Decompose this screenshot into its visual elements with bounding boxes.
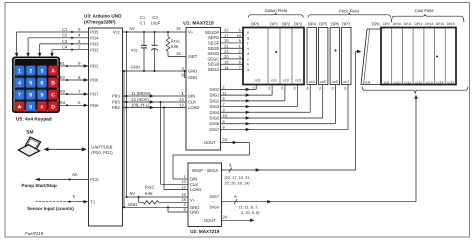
svg-text:DP12: DP12 <box>415 22 423 26</box>
svg-text:PD7: PD7 <box>90 92 99 97</box>
U1 DIG labels <box>210 87 220 132</box>
svg-text:9.9k: 9.9k <box>171 44 180 49</box>
svg-text:d: d <box>247 52 249 56</box>
wire DIG1 to cc1 <box>221 85 273 97</box>
svg-text:C1: C1 <box>140 15 146 20</box>
display gallon 4-digit <box>243 21 304 84</box>
brace Gallon Field <box>248 8 303 18</box>
capacitor C1 <box>140 15 147 71</box>
wire UART double arrow <box>44 147 87 151</box>
wire column C1 to pin 5 <box>15 27 89 57</box>
svg-text:2: 2 <box>223 85 225 90</box>
svg-text:T1: T1 <box>90 199 96 204</box>
svg-text:SEGC: SEGC <box>207 56 219 61</box>
svg-text:DP1: DP1 <box>270 21 279 26</box>
svg-text:cc5: cc5 <box>320 80 326 84</box>
U1 segment labels <box>205 30 220 72</box>
svg-text:4: 4 <box>18 81 21 87</box>
label digit bus pins <box>239 204 260 214</box>
decimal point price <box>335 50 337 52</box>
svg-text:23: 23 <box>224 49 228 54</box>
svg-text:DP11: DP11 <box>404 22 412 26</box>
wire row R4 to pin 6 <box>60 100 89 107</box>
resistor Rxx2 <box>139 184 188 204</box>
wire U2 DOUT <box>222 215 255 222</box>
svg-text:cc11: cc11 <box>404 81 411 85</box>
svg-text:9.9k: 9.9k <box>145 191 154 196</box>
svg-text:DIN: DIN <box>188 94 195 99</box>
svg-text:PB3: PB3 <box>112 94 121 99</box>
brace Cost Field <box>391 8 464 22</box>
svg-text:g: g <box>247 36 249 40</box>
svg-text:DOUT: DOUT <box>204 218 216 223</box>
svg-text:15: 15 <box>224 38 228 43</box>
svg-text:DIG7: DIG7 <box>210 194 220 199</box>
svg-text:R4: R4 <box>60 100 66 105</box>
svg-text:5: 5 <box>223 119 225 124</box>
U1 box <box>186 28 221 151</box>
svg-text:DIG3: DIG3 <box>210 104 220 109</box>
svg-text:1: 1 <box>18 68 21 74</box>
svg-text:9: 9 <box>40 93 43 99</box>
svg-text:2: 2 <box>29 68 32 74</box>
svg-text:SM: SM <box>26 130 33 136</box>
svg-text:Pump Start/Stop: Pump Start/Stop <box>22 183 58 188</box>
wire row R2 to pin 8 <box>60 75 89 82</box>
svg-text:(PD0, PD1): (PD0, PD1) <box>91 150 113 155</box>
svg-text:R3: R3 <box>60 89 66 94</box>
display digit DP5 <box>318 21 328 84</box>
U2 top label <box>192 168 219 173</box>
svg-text:Rxx2: Rxx2 <box>145 184 155 189</box>
svg-text:5: 5 <box>239 28 241 33</box>
svg-text:V+: V+ <box>188 30 194 35</box>
svg-text:U5: 4x4 Keypad: U5: 4x4 Keypad <box>16 116 52 122</box>
svg-text:5V: 5V <box>130 26 135 31</box>
svg-text:6: 6 <box>223 96 225 101</box>
svg-text:DP8: DP8 <box>372 22 381 27</box>
decimal point gallon <box>275 51 277 53</box>
svg-text:DP2: DP2 <box>282 21 291 26</box>
svg-text:★: ★ <box>17 103 22 110</box>
svg-text:cc14: cc14 <box>436 81 443 85</box>
svg-text:PD4: PD4 <box>90 35 99 40</box>
svg-text:SEGD: SEGD <box>207 51 219 56</box>
svg-text:11: 11 <box>223 90 227 95</box>
svg-text:3: 3 <box>332 86 334 91</box>
U2 box <box>188 163 222 227</box>
svg-text:p: p <box>247 31 249 35</box>
svg-text:cc3: cc3 <box>295 79 301 83</box>
svg-text:(22, 17, 15, 21,: (22, 17, 15, 21, <box>225 175 251 180</box>
svg-text:Vcc: Vcc <box>113 30 120 35</box>
svg-text:DP5: DP5 <box>319 21 328 26</box>
node 5V wire <box>123 26 187 33</box>
wire row R3 to pin 7 <box>60 89 89 96</box>
svg-text:3: 3 <box>281 86 283 91</box>
svg-text:V+: V+ <box>190 197 196 202</box>
decimal point cost <box>436 56 438 58</box>
svg-text:DP7: DP7 <box>342 21 351 26</box>
svg-text:0.1: 0.1 <box>140 21 146 26</box>
svg-text:19: 19 <box>176 26 181 31</box>
svg-text:GND: GND <box>188 75 197 80</box>
svg-text:12: 12 <box>181 184 186 189</box>
svg-text:GND: GND <box>188 69 197 74</box>
svg-text:C4: C4 <box>62 45 68 50</box>
wire sensor T1 <box>35 194 88 203</box>
svg-text:cc6: cc6 <box>332 80 338 84</box>
svg-text:R1: R1 <box>60 61 66 66</box>
svg-text:c: c <box>247 57 249 61</box>
svg-text:UART/USB: UART/USB <box>91 144 112 149</box>
svg-text:22: 22 <box>224 28 228 33</box>
svg-text:DP13: DP13 <box>425 22 433 26</box>
wire 5V rail <box>125 32 188 198</box>
bus U2 digits to cost display <box>222 95 418 205</box>
svg-text:Gallon Field: Gallon Field <box>265 8 288 13</box>
svg-text:Price Field: Price Field <box>339 8 359 13</box>
svg-text:Vcc: Vcc <box>131 47 138 52</box>
svg-text:DP4: DP4 <box>308 21 317 26</box>
svg-text:GND: GND <box>128 202 137 207</box>
svg-text:cc1: cc1 <box>271 79 277 83</box>
svg-text:U2: MAX7219: U2: MAX7219 <box>190 229 220 234</box>
svg-text:3: 3 <box>40 68 43 74</box>
svg-text:13: 13 <box>179 97 184 102</box>
svg-text:A: A <box>51 68 55 74</box>
svg-text:C: C <box>51 93 55 99</box>
resistor Rxx1 <box>166 32 186 57</box>
svg-text:21: 21 <box>224 44 228 49</box>
U3 left pin labels <box>90 30 113 205</box>
svg-text:DIG0: DIG0 <box>210 87 220 92</box>
svg-text:DIG0: DIG0 <box>210 205 220 210</box>
U2 left pin numbers <box>181 174 186 212</box>
brace Price Field <box>308 8 391 17</box>
svg-text:cc12: cc12 <box>415 81 422 85</box>
svg-text:12: 12 <box>179 102 184 107</box>
svg-text:SEGB: SEGB <box>208 62 220 67</box>
svg-text:8: 8 <box>29 93 32 99</box>
svg-text:(ATmega328P): (ATmega328P) <box>84 19 116 24</box>
svg-text:19: 19 <box>181 192 186 197</box>
wire DIG7 to cc7 <box>221 85 349 132</box>
wire column C3 to pin 3 <box>38 39 89 57</box>
wire GND rail <box>123 71 188 212</box>
svg-text:DP15: DP15 <box>447 22 455 26</box>
svg-text:#: # <box>40 104 43 110</box>
svg-text:DP9: DP9 <box>383 22 389 26</box>
svg-text:cc0: cc0 <box>255 79 261 83</box>
svg-text:18: 18 <box>176 51 181 56</box>
svg-text:SEGE: SEGE <box>208 46 220 51</box>
svg-text:3: 3 <box>268 86 270 91</box>
svg-text:11 (MOSI): 11 (MOSI) <box>131 91 151 96</box>
svg-text:LOAD: LOAD <box>190 187 201 192</box>
svg-text:5V: 5V <box>130 191 135 196</box>
svg-text:(2, 11, 6, 7,: (2, 11, 6, 7, <box>239 204 258 209</box>
svg-text:CLK: CLK <box>188 100 196 105</box>
svg-text:DIG1: DIG1 <box>210 93 220 98</box>
svg-text:PB1: PB1 <box>90 64 99 69</box>
svg-text:PD6: PD6 <box>90 103 99 108</box>
title Fuel7219 <box>25 231 44 236</box>
svg-text:D: D <box>51 104 55 110</box>
svg-text:A0: A0 <box>72 172 78 177</box>
svg-text:B: B <box>51 81 55 87</box>
svg-text:10(L-H-L): 10(L-H-L) <box>131 102 150 107</box>
svg-text:7: 7 <box>239 65 241 70</box>
svg-text:DIG6: DIG6 <box>210 121 220 126</box>
wire DIG4 to cc4 <box>221 85 311 114</box>
wire SPI 13 (SCK) <box>123 97 187 104</box>
svg-text:cc13: cc13 <box>426 81 433 85</box>
svg-text:3: 3 <box>306 86 308 91</box>
svg-text:8: 8 <box>223 125 225 130</box>
label U5 <box>16 116 52 122</box>
svg-text:SEGA: SEGA <box>208 67 220 72</box>
svg-text:6: 6 <box>40 81 43 87</box>
U1 left pin numbers <box>176 26 184 96</box>
label Pump Start/Stop <box>22 183 58 188</box>
svg-text:PB0: PB0 <box>90 78 99 83</box>
svg-text:cc7: cc7 <box>343 80 349 84</box>
wire DIG6 to cc6 <box>221 85 336 126</box>
svg-text:DOUT: DOUT <box>204 140 216 145</box>
svg-text:Sensor Input (counts): Sensor Input (counts) <box>27 206 74 211</box>
svg-text:PB5: PB5 <box>112 100 121 105</box>
wire SPI 10(L-H-L) <box>123 102 187 109</box>
svg-text:U1: MAX7219: U1: MAX7219 <box>183 20 214 26</box>
svg-text:R2: R2 <box>60 75 66 80</box>
display digit DP4 <box>307 21 317 84</box>
svg-text:PD3: PD3 <box>90 42 99 47</box>
U2 left labels <box>190 177 216 223</box>
svg-text:SEGP - SEGA: SEGP - SEGA <box>192 168 219 173</box>
svg-text:PD5: PD5 <box>90 30 99 35</box>
svg-text:DP3: DP3 <box>294 21 303 26</box>
label U3 title <box>84 14 122 25</box>
wire LOAD branch to U2 <box>163 106 188 189</box>
bus U2 segments to cost display <box>222 50 362 173</box>
svg-text:PC0: PC0 <box>90 177 99 182</box>
svg-text:0: 0 <box>29 104 32 110</box>
svg-text:DIG2: DIG2 <box>210 98 220 103</box>
svg-text:23, 20, 16, 14): 23, 20, 16, 14) <box>225 181 251 186</box>
svg-text:DIN: DIN <box>190 177 197 182</box>
label SM <box>26 130 33 136</box>
capacitor C2 <box>151 15 161 71</box>
svg-text:Rxx1: Rxx1 <box>171 38 181 43</box>
svg-text:a: a <box>247 68 249 72</box>
svg-text:PD2: PD2 <box>90 47 99 52</box>
wires U1 segments to display <box>221 28 244 70</box>
svg-text:Fuel7219: Fuel7219 <box>25 231 44 236</box>
U2 right labels <box>210 194 220 210</box>
label U2 title <box>190 229 220 234</box>
svg-text:SEFG: SEFG <box>208 35 219 40</box>
display digit DP8 <box>361 22 381 85</box>
wire row R1 to pin 9 <box>60 61 89 68</box>
svg-text:cc2: cc2 <box>283 79 289 83</box>
svg-text:SEGF: SEGF <box>208 40 220 45</box>
svg-text:LOAD: LOAD <box>188 105 199 110</box>
wire DIG5 to cc5 <box>221 85 323 120</box>
wire column C2 to pin 4 <box>26 33 88 58</box>
svg-text:DIG7: DIG7 <box>210 127 220 132</box>
wire CLK branch to U2 <box>159 101 188 184</box>
svg-text:U3: Arduino UNO: U3: Arduino UNO <box>84 14 122 19</box>
svg-text:24: 24 <box>223 137 228 142</box>
svg-text:DP10: DP10 <box>393 22 401 26</box>
svg-text:9: 9 <box>239 38 241 43</box>
wire DIG3 to cc3 <box>221 85 298 109</box>
svg-text:3: 3 <box>344 86 346 91</box>
wire SPI 11 (MOSI) <box>123 91 187 98</box>
svg-text:3, 10, 5, 8): 3, 10, 5, 8) <box>241 210 260 215</box>
label U1 title <box>183 20 214 26</box>
svg-text:Cost Field: Cost Field <box>415 8 435 13</box>
label segment bus pins <box>225 175 251 185</box>
wire DIG0 to cc0 <box>221 85 257 92</box>
svg-text:cc4: cc4 <box>309 80 315 84</box>
svg-text:SEGDP: SEGDP <box>205 30 220 35</box>
svg-text:DIG4: DIG4 <box>210 110 220 115</box>
U3 right pin labels <box>112 30 121 111</box>
svg-text:7: 7 <box>223 102 225 107</box>
svg-text:13 (SCK): 13 (SCK) <box>131 97 149 102</box>
svg-text:DIG5: DIG5 <box>210 116 220 121</box>
label Sensor Input <box>27 206 74 211</box>
svg-text:C3: C3 <box>62 39 68 44</box>
svg-text:3: 3 <box>293 86 295 91</box>
svg-text:6: 6 <box>239 60 241 65</box>
svg-text:DP6: DP6 <box>331 21 340 26</box>
svg-text:DP0: DP0 <box>251 21 260 26</box>
display digit DP6 <box>330 21 340 84</box>
display digit DP7 <box>342 21 352 84</box>
svg-text:16: 16 <box>224 60 228 65</box>
svg-text:GND: GND <box>190 210 199 215</box>
svg-text:C2: C2 <box>62 33 68 38</box>
pin 18 number <box>176 51 181 56</box>
svg-text:3: 3 <box>319 86 321 91</box>
laptop SM icon <box>18 137 40 156</box>
wire column C4 to pin 2 <box>50 45 88 58</box>
wire pump PC0 <box>35 172 88 181</box>
svg-text:GND: GND <box>131 65 140 70</box>
svg-text:ISET: ISET <box>188 54 198 59</box>
svg-text:24: 24 <box>223 215 228 220</box>
svg-text:e: e <box>247 47 249 51</box>
keypad U5 <box>13 57 60 113</box>
svg-text:cc9: cc9 <box>384 81 389 85</box>
underbrace cost cc pins <box>362 87 468 94</box>
svg-text:C1: C1 <box>62 27 68 32</box>
svg-text:17: 17 <box>224 33 228 38</box>
svg-text:1: 1 <box>239 44 241 49</box>
Arduino U3 box <box>89 28 123 226</box>
svg-text:cc10: cc10 <box>394 81 401 85</box>
svg-text:b: b <box>247 63 249 67</box>
node GND wire <box>123 47 187 77</box>
wire U1 DOUT cascade <box>173 137 249 179</box>
svg-text:2: 2 <box>239 49 241 54</box>
svg-text:DP14: DP14 <box>436 22 444 26</box>
svg-text:7: 7 <box>18 93 21 99</box>
U1 left labels <box>188 30 216 146</box>
svg-text:3: 3 <box>223 107 225 112</box>
display cost 7-digit block <box>381 22 456 84</box>
wire DIG2 to cc2 <box>221 85 285 103</box>
svg-text:f: f <box>247 41 248 45</box>
svg-text:5: 5 <box>29 81 32 87</box>
svg-text:C2: C2 <box>152 15 158 20</box>
svg-text:3: 3 <box>252 86 254 91</box>
svg-text:cc8: cc8 <box>365 81 371 85</box>
svg-text:10uF: 10uF <box>151 21 161 26</box>
svg-text:PB2: PB2 <box>112 105 121 110</box>
svg-text:cc15: cc15 <box>447 81 454 85</box>
